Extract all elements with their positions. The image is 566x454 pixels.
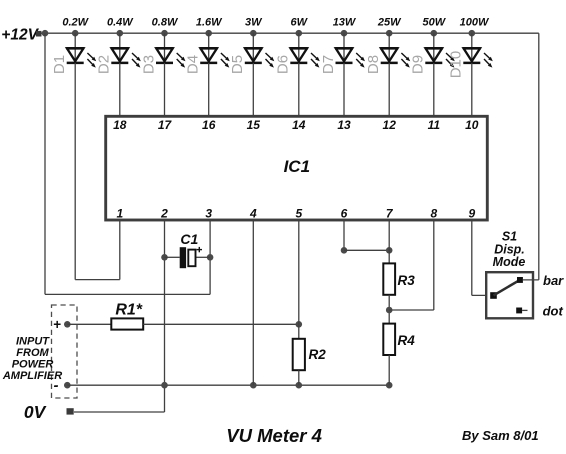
svg-text:18: 18 (113, 118, 127, 132)
wire pin1 down (119, 221, 121, 280)
svg-text:D2: D2 (96, 55, 113, 74)
resistor R2 (293, 339, 305, 370)
wire rail to D9 (433, 33, 435, 63)
svg-text:POWER: POWER (12, 358, 54, 370)
wire bar contact to +12V (523, 279, 539, 281)
wire D6 cathode to pin 14 (298, 63, 300, 116)
LED D4 (200, 48, 230, 67)
svg-text:17: 17 (158, 118, 173, 132)
svg-text:+12V: +12V (1, 27, 39, 44)
wire right rail drop to S1 bar (538, 33, 540, 280)
wire D8 cathode to pin 12 (388, 63, 390, 116)
svg-text:R4: R4 (398, 333, 416, 348)
wire rail to D7 (343, 33, 345, 63)
wire D7 cathode to pin 13 (343, 63, 345, 116)
resistor R3 (383, 263, 395, 294)
LED D2 (111, 48, 141, 67)
wire +12V rail (42, 32, 539, 34)
svg-text:6W: 6W (291, 17, 309, 29)
svg-text:3W: 3W (245, 17, 263, 29)
wire rail to D2 (119, 33, 121, 63)
wire D5 cathode to pin 15 (252, 63, 254, 116)
wire +12V to pin3 horizontal (45, 293, 210, 295)
svg-text:D9: D9 (410, 55, 427, 74)
LED D9 (425, 48, 455, 67)
svg-text:D1: D1 (51, 55, 68, 74)
0V terminal (67, 408, 74, 414)
wire pin6 to pin7 (344, 249, 389, 251)
op-amp U1 : IC1 LM3915 body (106, 116, 488, 220)
wire 0V ground rail (67, 384, 389, 386)
wire rail to D5 (252, 33, 254, 63)
node C1 left junction (161, 254, 168, 261)
wire pin3 down (209, 221, 211, 295)
wire rail to D4 (208, 33, 210, 63)
switch S1 common contact (490, 292, 497, 299)
node pin7 jog (386, 247, 393, 254)
svg-text:bar: bar (543, 273, 564, 288)
svg-text:13: 13 (337, 118, 351, 132)
node C1 right junction (207, 254, 214, 261)
wire pin8 to R3R4 junction (389, 309, 434, 311)
LED D5 (244, 48, 274, 67)
wire pin5 down (298, 221, 300, 339)
node rail junction D6 (296, 30, 303, 37)
wire D1 to pin1 (75, 279, 120, 281)
capacitor C1 (180, 247, 202, 268)
input terminal block (dashed) (52, 305, 78, 398)
node R3 R4 junction (386, 307, 393, 314)
svg-text:FROM: FROM (16, 347, 49, 359)
wire rail to D10 (471, 33, 473, 63)
svg-text:4: 4 (249, 207, 257, 221)
node pin4 ground junction (250, 382, 257, 389)
wire pin4 to ground (252, 221, 254, 386)
svg-text:100W: 100W (460, 17, 490, 29)
node R2 ground junction (296, 382, 303, 389)
wire pin9 to S1 (472, 294, 491, 296)
svg-text:R1*: R1* (115, 301, 142, 318)
svg-text:dot: dot (543, 304, 564, 319)
wire rail to D6 (298, 33, 300, 63)
node input - terminal (64, 382, 71, 389)
wire rail to D8 (388, 33, 390, 63)
resistor R1 (111, 318, 143, 329)
node rail junction D9 (431, 30, 438, 37)
LED D1 (66, 48, 96, 67)
node rail junction D3 (161, 30, 168, 37)
wire C1 right lead (196, 256, 211, 258)
label S1 Disp. Mode (493, 230, 526, 269)
wire D2 cathode to pin 18 (119, 63, 121, 116)
wire R3 to R4 (388, 295, 390, 324)
svg-text:D3: D3 (140, 55, 157, 74)
wire D10 cathode to pin 10 (471, 63, 473, 116)
wire dot contact stub (522, 309, 527, 311)
svg-text:0V: 0V (24, 402, 47, 422)
svg-text:0.2W: 0.2W (62, 17, 89, 29)
svg-text:D4: D4 (185, 55, 202, 74)
svg-text:11: 11 (428, 118, 441, 132)
LED D3 (156, 48, 186, 67)
wire C1 left lead (165, 256, 180, 258)
node R4 ground junction (386, 382, 393, 389)
svg-text:C1: C1 (180, 231, 198, 247)
wire R2 to ground (298, 370, 300, 385)
svg-text:0.8W: 0.8W (152, 17, 179, 29)
LED D10 (463, 48, 493, 67)
wire input+ to R1 (67, 323, 111, 325)
svg-text:By Sam 8/01: By Sam 8/01 (462, 428, 539, 443)
switch S1 box (486, 272, 533, 318)
svg-text:6: 6 (341, 207, 348, 221)
wire D9 cathode to pin 11 (433, 63, 435, 116)
svg-text:0.4W: 0.4W (107, 17, 134, 29)
node rail junction D1 (72, 30, 79, 37)
wire +12V left drop (44, 33, 46, 294)
node rail junction D7 (341, 30, 348, 37)
svg-text:15: 15 (247, 118, 261, 132)
svg-text:D6: D6 (275, 55, 292, 74)
svg-text:R3: R3 (398, 273, 416, 288)
wire D3 cathode to pin 17 (164, 63, 166, 116)
svg-text:1.6W: 1.6W (196, 17, 223, 29)
svg-text:IC1: IC1 (284, 157, 310, 176)
node rail junction D2 (117, 30, 124, 37)
svg-text:25W: 25W (377, 17, 402, 29)
wire to 0V terminal (74, 411, 165, 413)
svg-text:8: 8 (430, 207, 437, 221)
wire pin8 down (433, 221, 435, 310)
svg-text:1: 1 (116, 207, 123, 221)
svg-text:D10: D10 (448, 51, 465, 79)
node input + terminal (64, 321, 71, 328)
svg-text:5: 5 (295, 207, 302, 221)
node pin5 input junction (296, 321, 303, 328)
svg-text:D5: D5 (229, 55, 246, 74)
svg-text:VU Meter 4: VU Meter 4 (226, 425, 322, 446)
svg-text:9: 9 (468, 207, 475, 221)
svg-text:INPUT: INPUT (16, 336, 50, 348)
svg-text:Mode: Mode (493, 255, 526, 269)
svg-text:10: 10 (465, 118, 479, 132)
svg-text:3: 3 (205, 207, 212, 221)
node rail junction D10 (469, 30, 476, 37)
wire pin7 down (388, 221, 390, 264)
node +12V junction (42, 30, 49, 37)
wire pin9 down (471, 221, 473, 296)
svg-text:12: 12 (383, 118, 397, 132)
svg-text:D8: D8 (365, 55, 382, 74)
LED D7 (335, 48, 365, 67)
wire rail to D1 (74, 33, 76, 63)
label INPUT FROM POWER AMPLIFIER (2, 336, 62, 382)
wire R4 to ground (388, 355, 390, 385)
svg-text:50W: 50W (422, 17, 446, 29)
svg-text:13W: 13W (333, 17, 357, 29)
svg-text:14: 14 (292, 118, 306, 132)
node rail junction D4 (205, 30, 212, 37)
node rail junction D8 (386, 30, 393, 37)
wire R1 to pin5 (143, 323, 299, 325)
wire pin2 down (164, 221, 166, 412)
+12V terminal (36, 31, 42, 37)
svg-text:R2: R2 (309, 347, 327, 362)
resistor R4 (383, 324, 395, 355)
LED D6 (290, 48, 320, 67)
LED D8 (380, 48, 410, 67)
svg-text:D7: D7 (320, 55, 337, 74)
node rail junction D5 (250, 30, 257, 37)
switch S1 bar contact (517, 277, 523, 283)
switch S1 lever (494, 280, 520, 296)
wire rail to D3 (164, 33, 166, 63)
svg-text:16: 16 (202, 118, 216, 132)
wire D4 cathode to pin 16 (208, 63, 210, 116)
node pin2 ground junction (161, 382, 168, 389)
wire D1 cathode down (74, 63, 76, 280)
svg-text:AMPLIFIER: AMPLIFIER (2, 370, 62, 382)
switch S1 dot contact (516, 308, 522, 314)
node pin6 jog (341, 247, 348, 254)
svg-text:+: + (53, 317, 61, 332)
wire pin6 down (343, 221, 345, 251)
svg-text:2: 2 (160, 207, 168, 221)
